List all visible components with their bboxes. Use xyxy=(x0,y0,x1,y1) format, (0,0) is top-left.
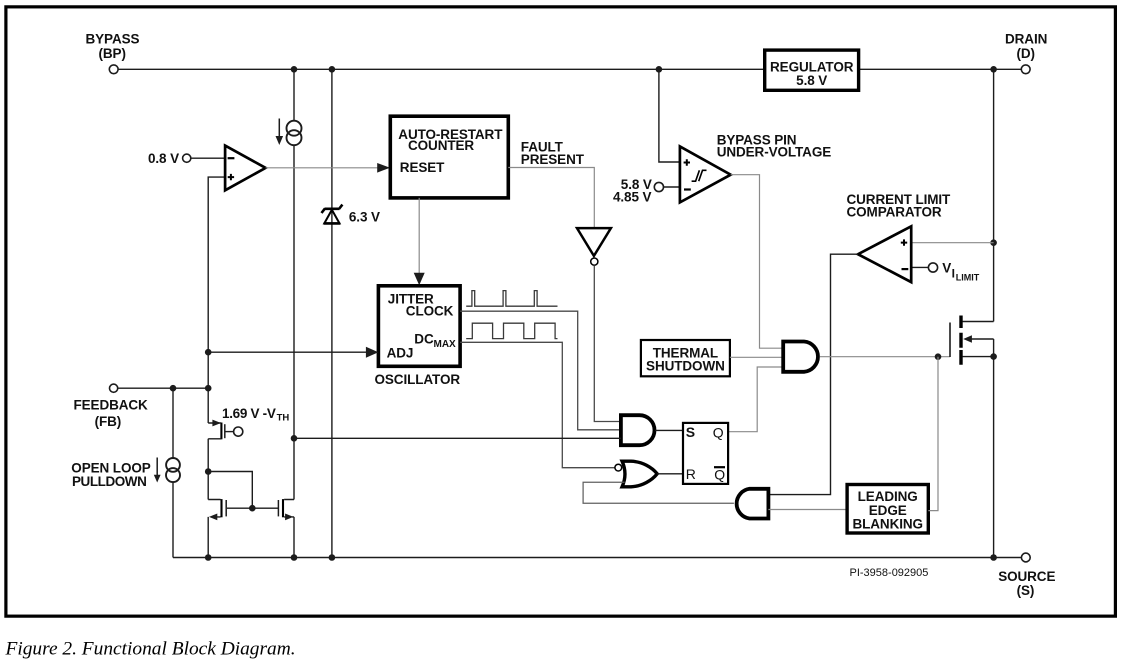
node: junction on rail at UV comparator feed xyxy=(656,66,663,73)
wire: vertical from rail through current source down to mirror xyxy=(293,69,295,557)
wire: U1 output to auto-restart counter xyxy=(266,167,378,169)
svg-text:Q: Q xyxy=(713,424,724,440)
oscillator box xyxy=(378,286,460,367)
svg-text:DC: DC xyxy=(414,331,434,346)
svg-text:CLOCK: CLOCK xyxy=(406,304,454,319)
svg-text:(D): (D) xyxy=(1017,46,1035,61)
wire: vertical from rail through zener down to bottom rail xyxy=(331,69,333,557)
arrow: into ADJ xyxy=(366,347,379,358)
svg-text:4.85 V: 4.85 V xyxy=(613,190,652,205)
op-amp U1 triangle xyxy=(225,146,266,191)
drain tap xyxy=(963,321,994,323)
svg-text:PULLDOWN: PULLDOWN xyxy=(72,474,146,489)
wire: inverter output down to S-gate input xyxy=(594,265,621,421)
svg-text:(S): (S) xyxy=(1017,583,1035,598)
svg-text:LEADING: LEADING xyxy=(858,489,918,504)
node: junction FB/sense xyxy=(205,385,212,392)
source tap xyxy=(963,356,994,358)
wire: OR output to latch R xyxy=(657,473,683,475)
svg-text:(BP): (BP) xyxy=(99,46,126,61)
svg-text:BLANKING: BLANKING xyxy=(852,516,922,531)
wire: S gate output to latch xyxy=(655,429,683,431)
wire: - input to VILIMIT terminal xyxy=(911,266,928,268)
wire: CL comparator output down to blanking AND xyxy=(768,254,858,494)
wire: UV comparator output down to AND gate xyxy=(731,175,784,349)
wire: CLOCK output to S-gate xyxy=(460,311,621,430)
svg-text:0.8 V: 0.8 V xyxy=(148,151,179,166)
wire: LEB sense from gate node xyxy=(928,357,938,511)
and-gate U6 (S set) xyxy=(621,415,655,445)
wire: UV comparator feed from rail xyxy=(659,69,680,162)
inverter bubble xyxy=(591,258,598,265)
svg-text:FEEDBACK: FEEDBACK xyxy=(74,398,149,413)
current source I2 open loop pulldown xyxy=(166,458,180,472)
inverter U2 xyxy=(577,228,611,256)
regulator U-REG box xyxy=(765,50,859,90)
node: junction at CL comparator + input xyxy=(990,239,997,246)
waveform: jitter clock pulses xyxy=(466,291,557,307)
body arrow xyxy=(972,338,994,340)
channel bars xyxy=(959,316,962,365)
waveform: DCmax square wave xyxy=(466,323,557,338)
wire: feedback line xyxy=(118,387,208,389)
zener diode VR1 6.3 V xyxy=(322,205,343,213)
wire: 5.8/4.85 terminal to inverting input xyxy=(664,186,680,188)
transistor Q2 feedback sense PMOS xyxy=(220,423,222,440)
wire: mirror gate link xyxy=(227,507,278,509)
wire: blanking AND lower input from LEB xyxy=(768,509,847,511)
wire: gate drive to MOSFET gate xyxy=(820,356,950,358)
terminal: VILIMIT circle xyxy=(928,263,937,272)
bubble on OR input xyxy=(615,464,622,471)
arrow: into oscillator top xyxy=(414,273,425,286)
node: junction on rail at zener xyxy=(329,66,336,73)
svg-text:ADJ: ADJ xyxy=(387,346,414,361)
arrow: open loop current direction xyxy=(156,458,158,477)
wire: ADJ input line from feedback node xyxy=(208,351,366,353)
svg-text:LIMIT: LIMIT xyxy=(956,272,980,282)
node: junction mirror-gate branch xyxy=(205,468,212,475)
wire: auto-restart counter to oscillator (reset arrow) xyxy=(418,198,420,274)
wire: thermal shutdown output to AND gate xyxy=(730,356,783,358)
arrow: current direction down beside I1 xyxy=(278,119,280,139)
thermal shutdown box xyxy=(641,340,730,376)
transistor Q3 mirror left NMOS xyxy=(220,499,222,517)
wire: non-inverting input down to feedback node xyxy=(208,177,225,423)
and-gate U5 (gate drive) xyxy=(783,342,818,372)
wire: BYPASS top rail xyxy=(118,68,1021,70)
svg-text:R: R xyxy=(686,466,696,482)
hysteresis glyph inside U3 xyxy=(692,170,707,181)
wire: Q2 drain down to mirror gate branch xyxy=(207,439,209,558)
terminal: BYPASS pin circle xyxy=(109,65,118,74)
svg-text:BYPASS: BYPASS xyxy=(86,31,140,46)
and-gate U9 (blanking, faces left) xyxy=(737,489,769,519)
node: junction on rail at drain xyxy=(990,66,997,73)
svg-text:COMPARATOR: COMPARATOR xyxy=(847,205,942,220)
svg-text:V: V xyxy=(942,261,951,276)
comparator U4 current limit (points left) xyxy=(858,226,911,282)
current source I1 (bypass charge) xyxy=(287,121,302,136)
or-gate U7 (R reset) xyxy=(622,461,657,487)
svg-text:RESET: RESET xyxy=(400,160,445,175)
svg-text:S: S xyxy=(686,424,695,440)
terminal: DRAIN pin circle xyxy=(1021,65,1030,74)
svg-text:Figure 2. Functional Block Di: Figure 2. Functional Block Diagram. xyxy=(5,639,296,660)
wire: + input from drain sense xyxy=(911,242,993,244)
svg-text:(FB): (FB) xyxy=(95,414,122,429)
svg-text:SHUTDOWN: SHUTDOWN xyxy=(646,359,725,374)
svg-text:MAX: MAX xyxy=(434,339,457,350)
node: rail junctions xyxy=(205,554,212,561)
terminal: SOURCE pin xyxy=(1021,553,1030,562)
wire: bottom source rail xyxy=(173,557,1021,559)
wire: branch to mirror gates xyxy=(208,472,252,509)
terminal: 0.8 V circle xyxy=(183,154,191,162)
svg-text:COUNTER: COUNTER xyxy=(408,138,474,153)
terminal: 5.8 V / 4.85 V circle xyxy=(654,182,663,191)
svg-text:5.8 V: 5.8 V xyxy=(796,73,827,88)
wire: drain vertical xyxy=(993,69,995,557)
comparator U3 bypass pin under-voltage xyxy=(680,146,731,202)
wire: blanking AND output loop to OR input xyxy=(583,482,734,503)
node: junction at source tap xyxy=(990,353,997,360)
transistor Q4 mirror right NMOS xyxy=(282,499,284,517)
node: junction on rail at current source xyxy=(291,66,298,73)
gate bar xyxy=(949,323,951,358)
svg-text:UNDER-VOLTAGE: UNDER-VOLTAGE xyxy=(717,144,832,159)
node: junction ADJ branch xyxy=(205,349,212,356)
node: junction mirror gates xyxy=(249,505,256,512)
latch U8 S/R xyxy=(683,423,728,484)
wire: 0.8V input to inverting input xyxy=(191,157,225,159)
leading edge blanking box xyxy=(847,485,928,534)
node: junction at mirror top xyxy=(291,435,298,442)
svg-text:1.69 V -V: 1.69 V -V xyxy=(222,406,276,421)
node: junction gate/LEB xyxy=(935,353,942,360)
wire: open loop vertical xyxy=(172,388,174,557)
auto-restart counter box xyxy=(390,116,508,198)
wire: third input to S gate from feedback transistor xyxy=(294,437,621,439)
svg-text:Q: Q xyxy=(714,466,725,482)
wire: FAULT PRESENT output to inverter xyxy=(508,168,594,229)
terminal: FEEDBACK pin xyxy=(110,384,118,392)
svg-text:OSCILLATOR: OSCILLATOR xyxy=(375,372,461,387)
node: junction FB/open-loop xyxy=(170,385,177,392)
wire: DCmax output to OR gate bubble xyxy=(460,342,615,467)
svg-text:DRAIN: DRAIN xyxy=(1005,31,1047,46)
svg-text:6.3 V: 6.3 V xyxy=(349,210,380,225)
arrow: into RESET input xyxy=(377,163,390,173)
svg-text:PRESENT: PRESENT xyxy=(521,152,585,167)
svg-text:PI-3958-092905: PI-3958-092905 xyxy=(850,567,929,579)
svg-text:TH: TH xyxy=(277,413,290,424)
svg-text:I: I xyxy=(952,267,955,281)
wire: latch Q output up to AND gate xyxy=(728,367,783,432)
